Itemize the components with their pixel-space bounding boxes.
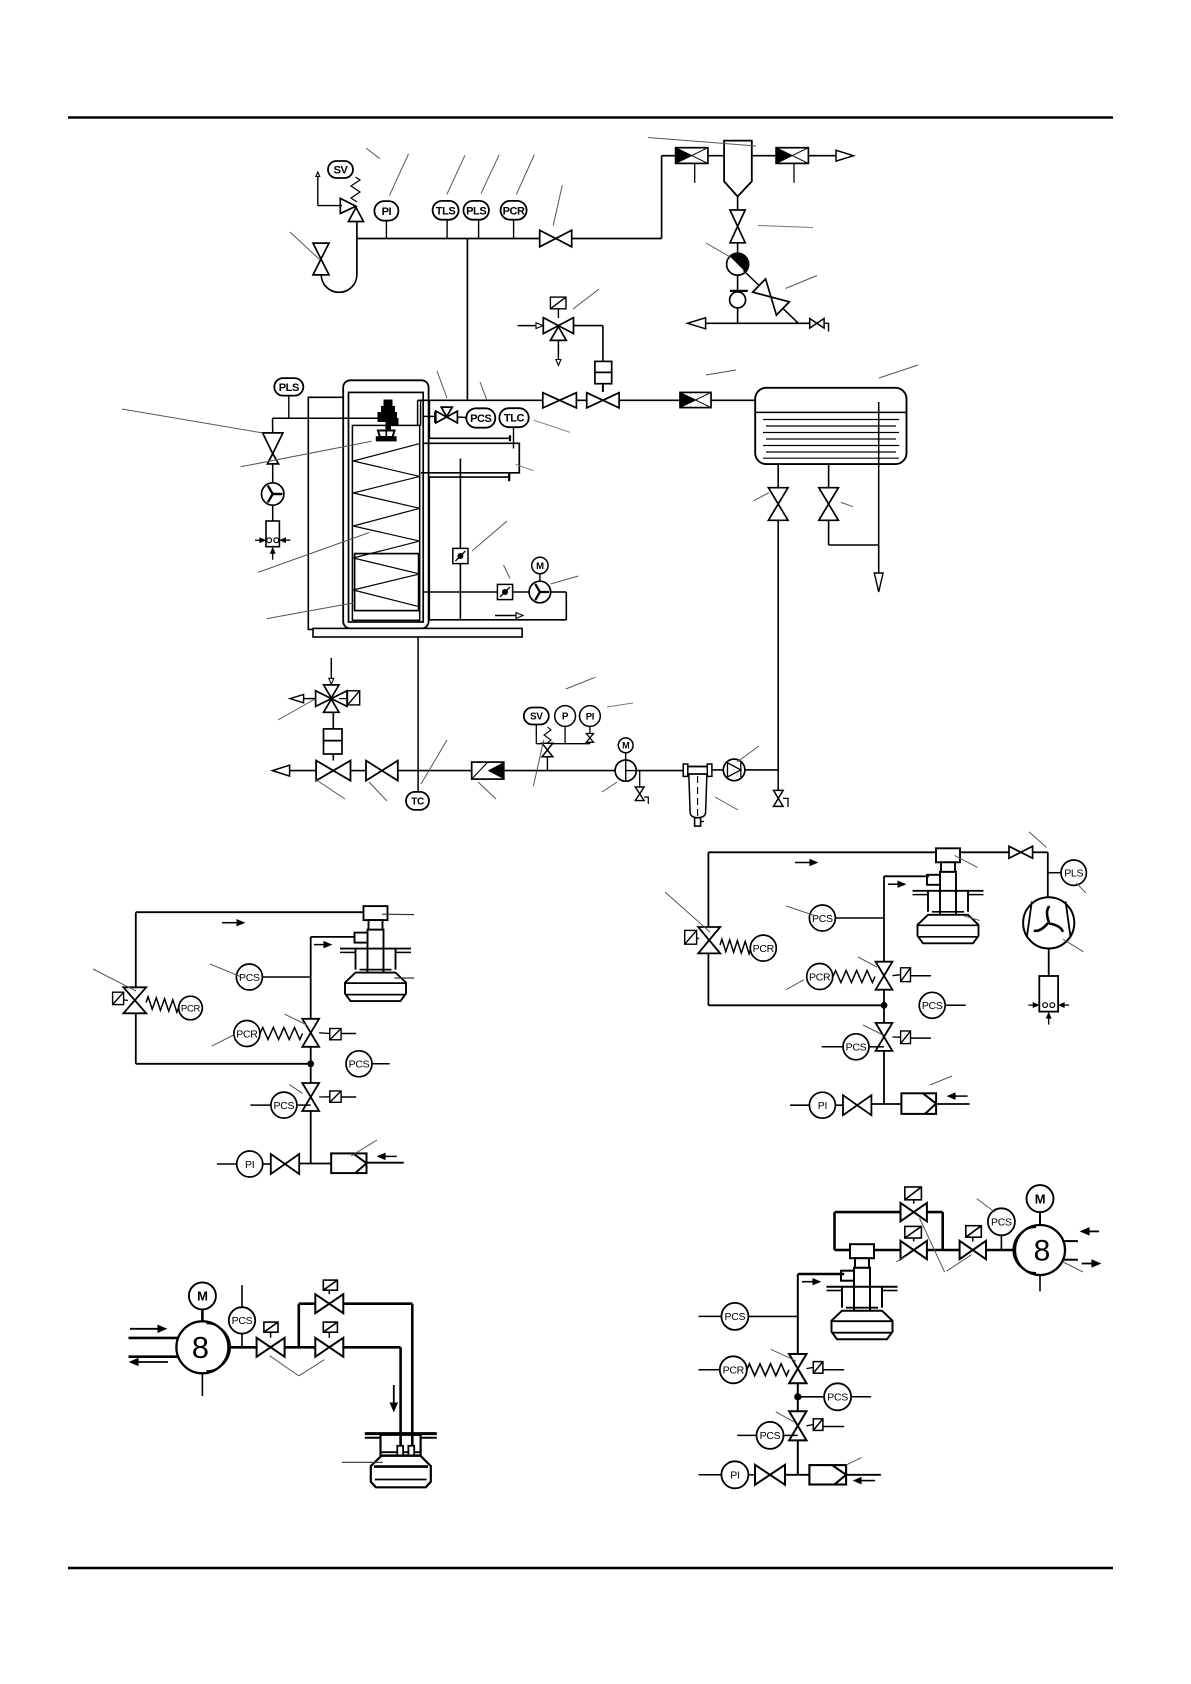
port line [798,1273,844,1276]
wire to actuator [574,325,603,327]
check unit [331,1153,366,1173]
instrument PCS 2 [798,1396,824,1398]
bottom row [790,1104,809,1106]
instrument PLS stem [288,396,290,419]
outlet 1 [777,464,779,488]
instrument PLS [1048,872,1061,874]
damper 1 [453,548,468,563]
instrument PCS [809,905,835,931]
tank vessel [349,392,424,622]
bottom row [699,1474,722,1476]
drain arrow [878,545,880,573]
cyclone separator [724,141,752,197]
svg-text:M: M [197,1289,208,1304]
wire [752,155,776,157]
control valve w/ actuator [316,761,350,781]
inlet arrow [518,325,536,327]
steam trap [730,290,748,292]
chamber inner bottom line [429,476,509,478]
valve 2 [901,1241,927,1259]
flow arrow [222,922,237,924]
check unit [901,1093,936,1114]
control valve with actuator [587,393,619,408]
svg-text:PCR: PCR [181,1003,201,1014]
wire [737,308,739,323]
pressure control valve [123,987,146,1013]
filter vessel [683,764,712,826]
wire to governor port [884,875,929,877]
wire cyclone underflow [737,197,739,211]
solenoid valve HX feed [680,392,711,407]
regulator governor [827,1244,898,1339]
wire top line [136,911,364,913]
damper 2 [497,584,512,599]
valve on header [540,230,572,247]
vent line with arrow [318,205,342,207]
bypass valve [315,1294,343,1313]
svg-text:PCR: PCR [236,1028,258,1040]
L-duct down [428,477,430,620]
pump [615,760,636,781]
svg-text:PI: PI [382,206,392,218]
wire to governor port [311,936,355,938]
leader [573,289,599,309]
PLS line into tank [273,417,382,419]
valve [543,393,577,408]
svg-text:PCS: PCS [232,1315,253,1327]
instrument PCS [241,1285,243,1307]
flow arrow [795,862,810,864]
svg-text:PCS: PCS [239,972,260,984]
3-way instrument valve [423,415,435,417]
leader lines [648,138,756,147]
open arrow left end [272,765,289,776]
pilot box [323,1322,337,1332]
valve top [1009,846,1033,858]
instrument PLS [274,378,303,396]
leader lines [472,521,507,551]
instrument PCS 2 [919,992,945,1018]
svg-text:8: 8 [1034,1235,1051,1268]
bypass [297,1304,300,1348]
exhaust line [423,591,529,593]
discharge line [228,1346,256,1349]
wire [272,464,274,483]
pump 8 [176,1321,230,1373]
leader lines [879,365,918,378]
svg-text:PCS: PCS [470,413,491,425]
blower [1023,897,1074,948]
lower heating zone box [355,554,419,611]
control valve 2 [302,1019,319,1047]
wire SV outlet down through header [356,222,358,275]
tank inner liner [352,425,419,620]
suction lines [129,1337,178,1340]
svg-text:PCS: PCS [274,1100,295,1112]
tube lines [763,419,899,421]
svg-text:TLC: TLC [504,413,525,425]
solenoid valve cyclone outlet [776,148,808,164]
check unit [809,1465,846,1484]
top rule [68,116,1113,119]
pilot box [901,968,911,982]
svg-text:TC: TC [411,797,424,808]
svg-text:PI: PI [818,1100,827,1112]
motor M [532,557,548,573]
wire main vertical [310,937,312,1163]
svg-text:PI: PI [245,1159,254,1171]
svg-text:PCS: PCS [846,1042,867,1054]
wire vent with open arrow [808,155,836,157]
instrument PCS 3 [757,1422,784,1449]
spring [720,939,751,954]
dip tube [459,459,461,620]
leader lines [366,148,380,159]
chamber inner top line [429,437,508,439]
wire top line [708,851,937,853]
agitator drive (black) [376,400,399,442]
valve [843,1095,871,1115]
strainer [472,762,504,779]
heat exchanger shell [755,388,906,464]
TLC stem [513,427,515,448]
loop seal U-bend [321,275,357,293]
pilot box [685,930,697,944]
wire main vertical [883,876,885,1104]
3-way relief valve [543,318,573,334]
motor M [189,1282,216,1309]
wire bottom of loop [136,1063,311,1065]
siphon valve [313,243,329,275]
control valve 3 [876,1023,893,1051]
leader lines [421,740,447,784]
leader lines [93,969,136,991]
svg-text:M: M [622,741,629,751]
flow arrow [888,883,898,885]
wire [457,416,466,419]
instrument PCR stem [513,220,515,239]
spring to PCR [146,997,179,1012]
valve 1 [257,1338,285,1357]
heating coil [353,444,420,607]
instrument TLS [433,201,459,220]
level chamber outer [421,443,519,473]
flow arrow [802,1281,813,1283]
solenoid valve cyclone inlet [676,148,708,164]
pilot box [550,297,566,309]
svg-text:PCS: PCS [760,1430,781,1442]
wire [737,243,739,254]
sight flow indicator [723,759,745,781]
spring [833,971,875,983]
internal pipe [878,402,880,545]
vapour outlet stub (double) [417,400,419,425]
junction dot [307,1060,314,1067]
valve outlet 2 [819,488,839,521]
instrument TC [406,792,429,810]
leader to hat [382,913,414,915]
instrument P [555,706,576,727]
instrument PCS [466,408,495,427]
valve outlet 1 [768,488,788,521]
wire left drop [707,852,709,927]
sight glass [727,253,749,275]
pilot box [348,691,360,705]
pump drain stub [201,1373,203,1396]
instrument PI [237,1151,263,1177]
control valve 3 [789,1411,806,1440]
control valve 2 [876,962,893,990]
pipe collars [397,1446,403,1456]
instrument PCS 3 [843,1034,869,1060]
wire bottom header [290,770,317,772]
svg-text:PCR: PCR [809,971,831,983]
instrument PI [580,706,601,727]
svg-text:8: 8 [192,1330,209,1365]
instrument PCS 1 [699,1315,722,1317]
housing [381,1435,421,1456]
pilot box [966,1226,982,1238]
bypass diagonal valve [744,271,799,324]
wire [708,155,724,157]
vacuum breaker valve [263,433,283,454]
leader lines [665,892,710,932]
wire branch from header [466,239,468,401]
instrument PCR [501,201,527,220]
drain valve under downcomer [777,770,779,791]
bell housing [371,1456,431,1488]
exhaust fan [529,581,551,603]
wire [272,505,274,521]
instrument SV [328,161,353,178]
svg-text:PI: PI [586,711,594,722]
wire down to breather [272,418,274,433]
wire header line [357,238,662,240]
relief valve [542,743,553,757]
instrument PLS stem [478,220,480,239]
stem [793,163,795,182]
left jacket [308,397,343,629]
leader lines [437,371,447,398]
svg-text:PCS: PCS [827,1392,848,1404]
wire header riser to cyclone [661,156,663,239]
instrument PI [374,201,398,221]
bottom rule [68,1567,1113,1570]
wire [737,275,739,292]
wire cyclone inlet [662,155,676,157]
piston actuator [595,361,612,372]
silencer [255,521,290,560]
wire [1033,851,1048,853]
flow arrow down [393,1385,395,1403]
svg-text:PI: PI [730,1470,739,1482]
instrument PI [721,1461,748,1488]
flow arrow in [955,1095,968,1097]
instrument PCS [236,964,262,990]
tail [824,323,828,331]
instrument SV [524,708,549,725]
pilot box [330,1029,341,1040]
svg-text:PLS: PLS [279,382,299,394]
pressure control valve [698,927,720,953]
bypass [833,1212,836,1250]
pilot box [330,1091,341,1102]
instrument PCR [750,935,776,961]
drain valve [639,771,641,787]
regulator governor [340,906,411,1001]
vent arrow down [557,340,559,356]
svg-text:PLS: PLS [466,205,486,217]
control valve [789,1354,806,1383]
control valve 3 [302,1083,319,1111]
instrument PCR 2 [807,964,833,990]
outlet 2 [828,464,830,488]
instrument PCS 3 [271,1092,297,1118]
duct bottom run [429,619,566,621]
pilot box [813,1419,823,1431]
svg-text:PCS: PCS [812,913,833,925]
stirrer drive flange [365,1432,437,1435]
leader to bell [394,977,414,979]
outlet stubs [1063,1240,1078,1242]
pilot box [264,1322,278,1332]
svg-text:M: M [536,561,544,572]
svg-text:PCS: PCS [349,1059,370,1071]
top arrow into valve [330,658,332,675]
downcomer [777,520,779,770]
safety valve body [340,198,356,213]
pilot box [813,1362,823,1374]
gauge valve [586,734,593,743]
svg-text:PCR: PCR [723,1365,745,1377]
leader lines [122,409,263,433]
instrument PCS [988,1208,1015,1235]
svg-text:PLS: PLS [1064,867,1083,879]
leader lines [270,1356,299,1376]
flow arrow in [385,1155,397,1157]
instrument TLS stem [446,220,448,239]
pilot box [113,992,124,1004]
svg-text:PCR: PCR [753,943,775,955]
valve 3 [960,1241,986,1259]
instrument PI [809,1092,835,1118]
silencer [1028,976,1069,1025]
svg-text:TLS: TLS [436,205,456,217]
svg-text:PCR: PCR [503,205,525,217]
svg-text:SV: SV [334,164,349,176]
standpipe [428,400,430,438]
3-way switch valve [316,691,347,707]
svg-text:M: M [1035,1191,1046,1206]
valve [271,1154,299,1174]
bypass valve [901,1203,927,1221]
pump 8 [1013,1225,1065,1275]
stem [694,163,696,182]
pilot box [905,1226,922,1238]
main vertical [797,1274,799,1475]
instrument PLS [463,201,489,220]
instrument TLC [499,408,528,427]
flow arrows [130,1328,158,1330]
junction dot [881,1002,888,1009]
valve under cyclone [730,210,745,243]
flow arrows [1089,1230,1099,1232]
duct riser [565,592,567,620]
pilot box [323,1280,337,1290]
regulator governor [913,848,984,943]
junction dot [794,1393,801,1400]
svg-text:PCS: PCS [922,1000,943,1012]
motor M [1027,1185,1054,1212]
svg-text:PCS: PCS [725,1311,746,1323]
flow arrow in [861,1480,875,1482]
svg-text:SV: SV [530,712,543,723]
drain valve small [810,319,824,329]
main line [835,1249,851,1252]
fan [262,483,284,505]
tank outer casing [343,380,428,628]
spring [260,1028,303,1040]
valve 2 [315,1338,343,1357]
liquid level line [756,411,907,413]
left arrow [304,698,316,700]
instrument PI stem [385,221,387,239]
PCR row [699,1369,720,1371]
instrument PCR [179,996,203,1020]
drain header with open arrow [702,322,810,324]
bottom row [217,1163,237,1165]
flow arrow [314,944,324,946]
wire main vapour line [418,399,680,401]
down pipes to stirrer [399,1347,402,1446]
flow arrow [495,615,516,617]
spring of safety valve [351,177,360,202]
baseplate [313,628,522,637]
wire [711,399,755,401]
wire left drop [135,912,137,987]
instrument PCR 2 [234,1021,260,1047]
instrument PCS 2 [346,1051,372,1077]
TC line [417,637,419,792]
pilot box [905,1187,922,1200]
wire [1048,949,1050,977]
pilot box [901,1031,911,1044]
valve [755,1465,785,1485]
motor M [618,738,633,753]
isolation valve [366,761,398,781]
pump stub [1039,1275,1041,1291]
leader lines [920,1218,945,1272]
svg-text:PCS: PCS [991,1217,1012,1229]
svg-text:P: P [562,712,569,723]
wire bottom of loop [708,1004,884,1006]
wire [828,520,830,545]
